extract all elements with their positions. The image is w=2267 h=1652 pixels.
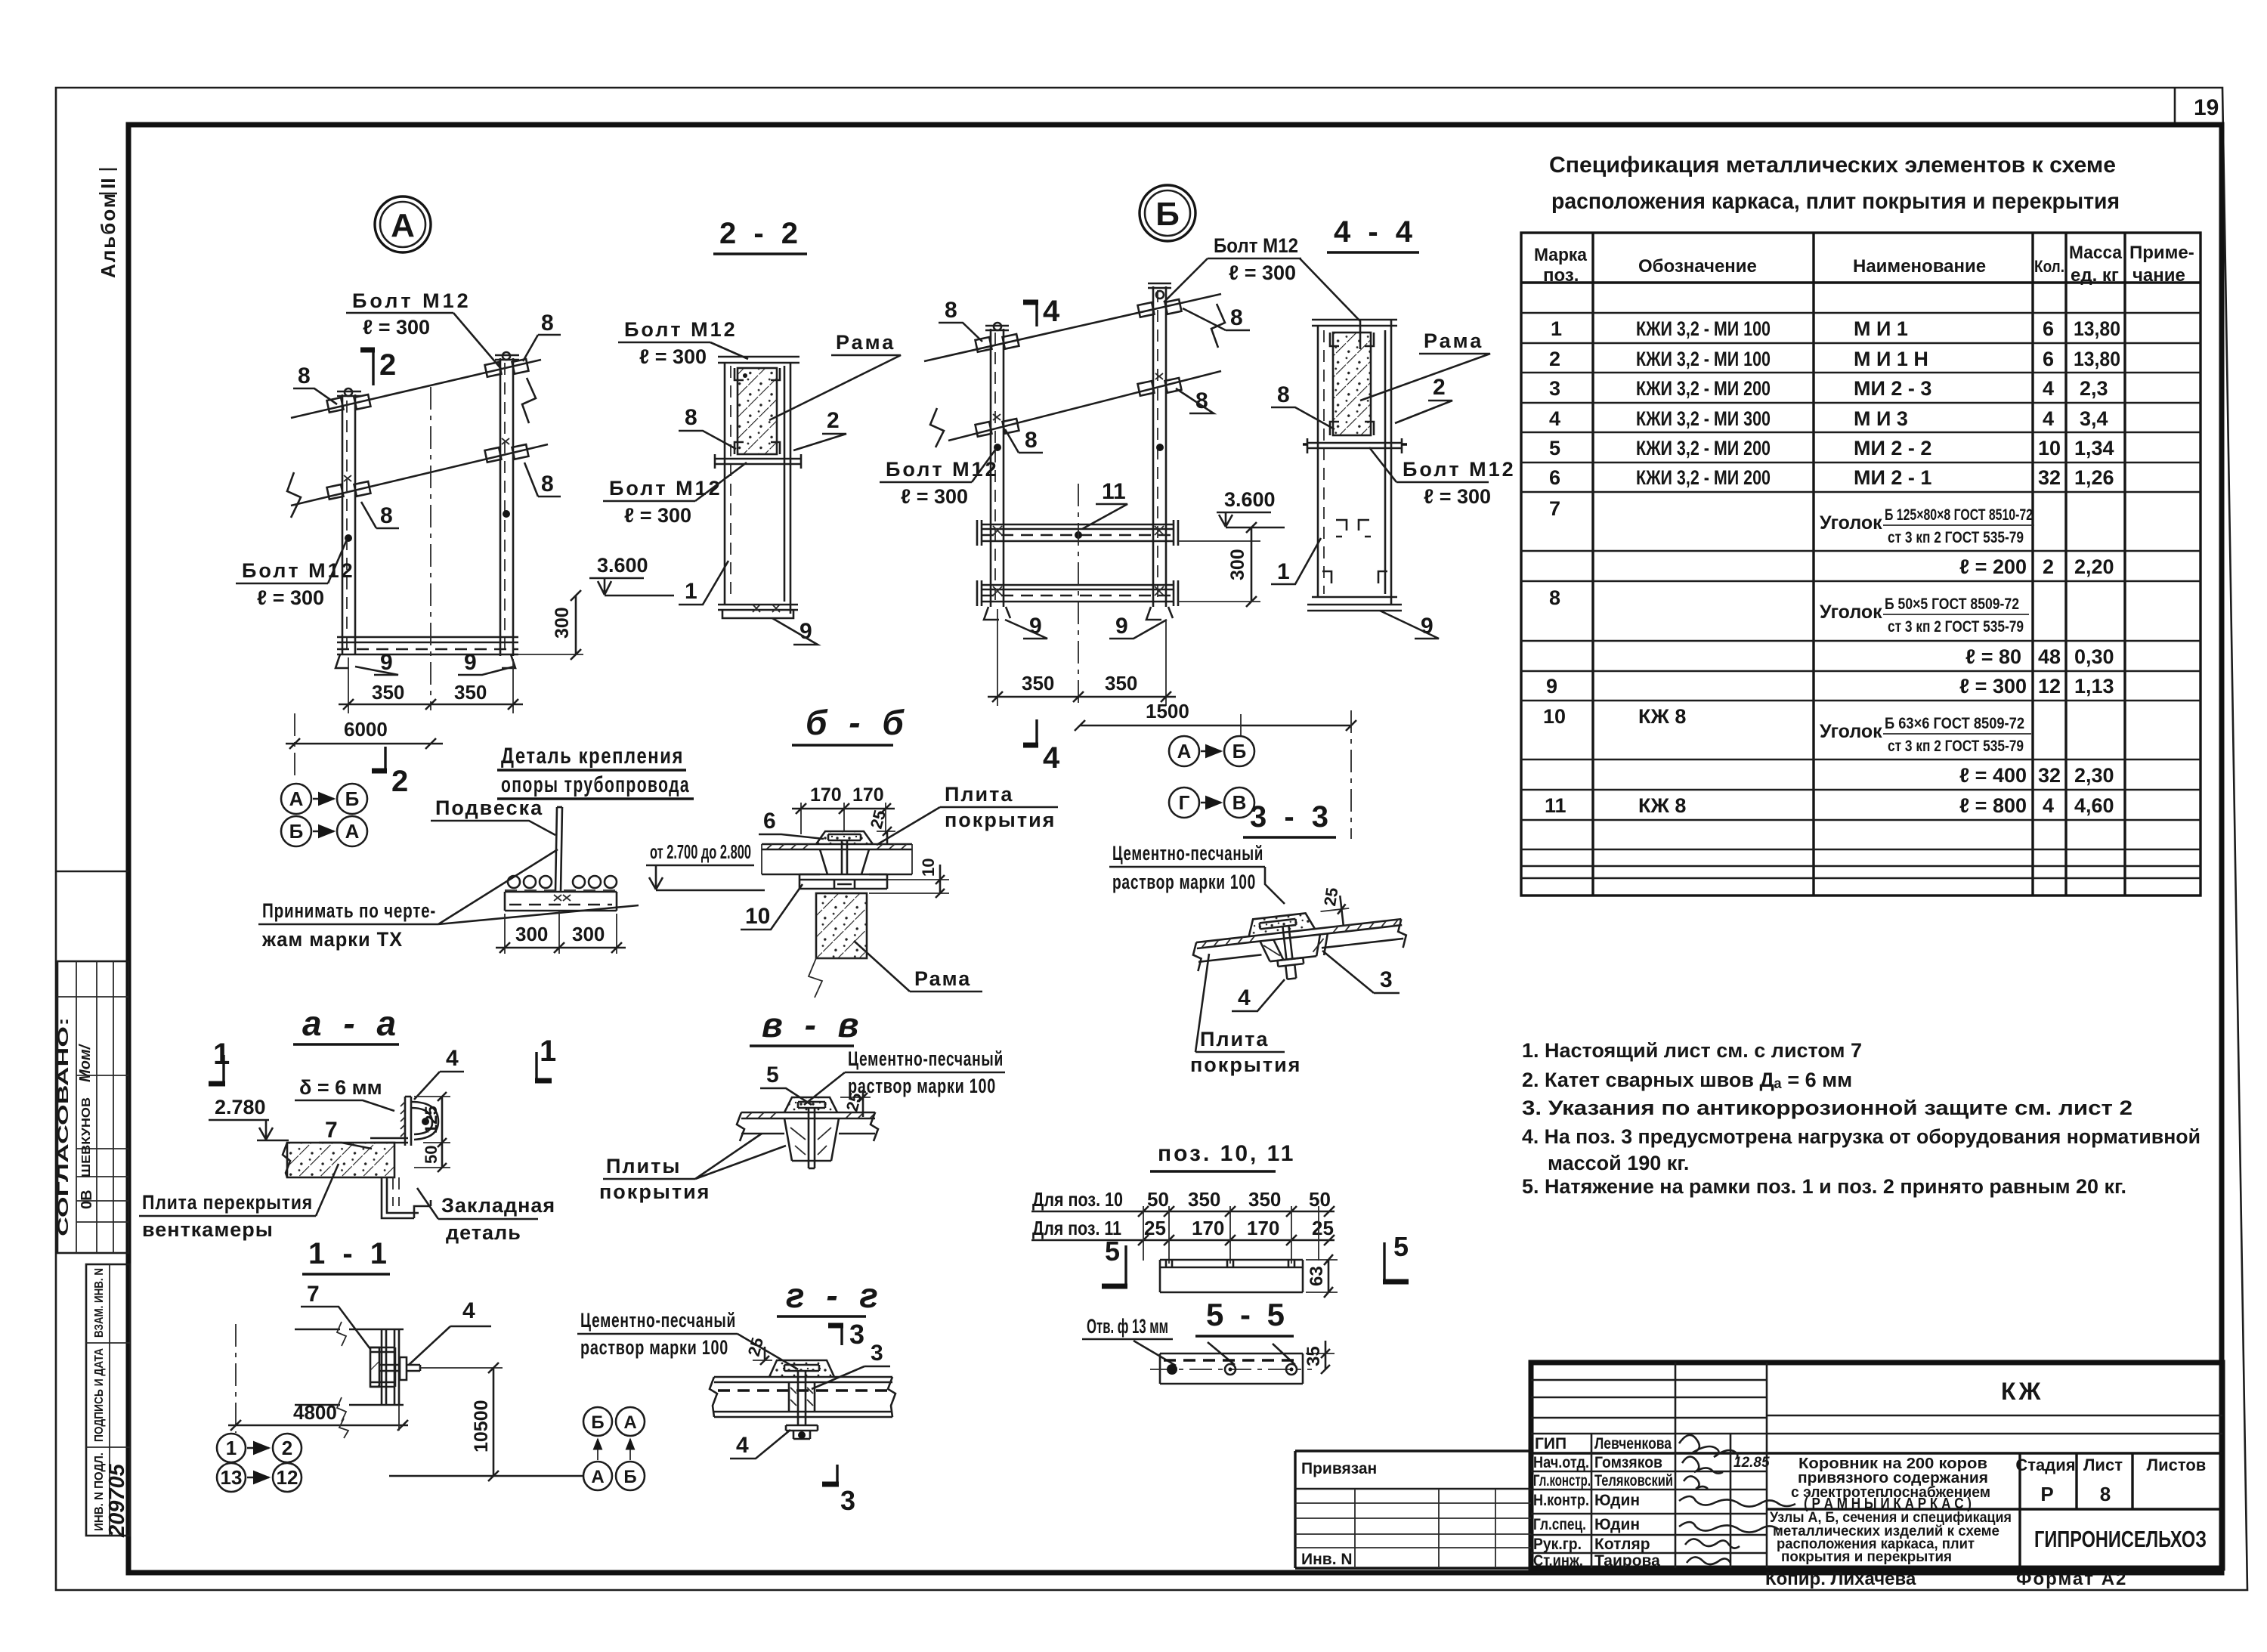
svg-text:6: 6 <box>2043 317 2054 340</box>
svg-text:9: 9 <box>1115 614 1128 639</box>
svg-text:4: 4 <box>462 1298 475 1323</box>
svg-text:4 - 4: 4 - 4 <box>1334 215 1417 249</box>
svg-text:Стадия: Стадия <box>2015 1456 2075 1474</box>
dim 125 and 50 <box>414 1097 450 1168</box>
column top cap <box>1312 320 1397 326</box>
svg-text:48: 48 <box>2038 645 2061 668</box>
svg-text:ℓ = 300: ℓ = 300 <box>257 586 324 609</box>
section mark 2 top <box>372 348 374 385</box>
bolt dots mid posts <box>345 534 352 542</box>
plate elevation <box>1160 1260 1303 1292</box>
svg-text:8: 8 <box>2100 1483 2111 1505</box>
svg-text:ℓ = 300: ℓ = 300 <box>1424 485 1491 508</box>
svg-text:300: 300 <box>515 923 548 945</box>
svg-text:Уголок: Уголок <box>1820 602 1882 623</box>
svg-text:6: 6 <box>1549 466 1560 489</box>
svg-text:расположения каркаса, плит: расположения каркаса, плит покрытия и пе… <box>1551 189 2120 214</box>
svg-text:Нач.отд.: Нач.отд. <box>1533 1454 1589 1471</box>
axis dash-dot <box>235 1324 237 1433</box>
svg-text:М И 3: М И 3 <box>1854 407 1908 430</box>
svg-text:50: 50 <box>1147 1188 1169 1211</box>
svg-text:170: 170 <box>852 784 884 806</box>
svg-text:В: В <box>1232 791 1247 814</box>
dim 170 170 <box>801 803 886 834</box>
slab <box>762 844 912 849</box>
svg-text:2,3: 2,3 <box>2080 377 2108 400</box>
beam <box>505 892 617 911</box>
svg-text:раствор марки 100: раствор марки 100 <box>848 1075 996 1097</box>
svg-text:Принимать по черте-: Принимать по черте- <box>262 899 436 922</box>
svg-text:3. Указания по антикоррозион: 3. Указания по антикоррозионной защите с… <box>1522 1097 2132 1119</box>
svg-text:М И 1: М И 1 <box>1854 317 1908 340</box>
horizontal bar 2 <box>977 580 1178 606</box>
svg-text:КЖ 8: КЖ 8 <box>1638 794 1686 817</box>
svg-text:9: 9 <box>1546 675 1557 698</box>
svg-text:8: 8 <box>685 405 697 430</box>
svg-text:350: 350 <box>1188 1188 1220 1211</box>
svg-text:1. Настоящий лист см. с ли: 1. Настоящий лист см. с листом 7 <box>1522 1039 1862 1062</box>
svg-text:0В: 0В <box>79 1190 95 1209</box>
wire diagonal 2 <box>291 444 548 506</box>
hook D-shape <box>411 1102 438 1140</box>
break marks <box>930 408 944 447</box>
leader to right post top bolt <box>453 313 502 370</box>
dim 63 <box>1306 1260 1338 1292</box>
svg-text:Рама: Рама <box>914 967 971 990</box>
svg-text:ℓ = 300: ℓ = 300 <box>1959 675 2027 698</box>
svg-text:ГИП: ГИП <box>1535 1435 1566 1452</box>
svg-text:3: 3 <box>1549 377 1560 400</box>
dim 1500 <box>1080 725 1351 727</box>
svg-text:8: 8 <box>1025 428 1038 453</box>
dim 10500 vertical <box>420 1367 503 1369</box>
svg-text:А: А <box>1177 740 1192 763</box>
svg-text:ℓ = 200: ℓ = 200 <box>1959 555 2027 578</box>
rib trapezoid <box>784 1118 839 1161</box>
svg-text:300: 300 <box>552 607 573 639</box>
svg-text:Копир. Лихачева: Копир. Лихачева <box>1765 1569 1916 1589</box>
svg-text:поз. 10, 11: поз. 10, 11 <box>1158 1141 1295 1166</box>
svg-text:4: 4 <box>1043 741 1060 775</box>
svg-text:2 - 2: 2 - 2 <box>719 217 803 250</box>
svg-text:ℓ = 300: ℓ = 300 <box>901 485 968 508</box>
svg-text:3 - 3: 3 - 3 <box>1250 800 1333 834</box>
svg-text:Б 50×5 ГОСТ 8509-72: Б 50×5 ГОСТ 8509-72 <box>1885 596 2019 613</box>
break marks on wires <box>287 472 301 518</box>
bolt bar <box>715 459 801 464</box>
svg-text:поз.: поз. <box>1543 265 1579 286</box>
beam band <box>714 1377 892 1417</box>
svg-text:Уголок: Уголок <box>1820 721 1882 742</box>
svg-text:1: 1 <box>1551 317 1562 340</box>
anchor bolt <box>1282 926 1292 960</box>
dots on posts <box>994 444 1001 451</box>
svg-text:Уголок: Уголок <box>1820 512 1882 534</box>
svg-text:Б: Б <box>345 787 360 810</box>
svg-text:10: 10 <box>919 858 938 877</box>
svg-text:4: 4 <box>2043 794 2054 817</box>
svg-text:4: 4 <box>2043 407 2054 430</box>
dim 35 <box>1306 1353 1335 1354</box>
svg-text:2: 2 <box>1433 375 1446 400</box>
svg-text:ст 3 кп 2 ГОСТ 535-79: ст 3 кп 2 ГОСТ 535-79 <box>1888 618 2024 636</box>
svg-text:300: 300 <box>1227 549 1248 580</box>
post <box>382 1329 399 1405</box>
svg-text:СОГЛАСОВАНО:: СОГЛАСОВАНО: <box>56 1017 72 1236</box>
roof slab sloped <box>1196 919 1403 962</box>
svg-text:А: А <box>623 1412 636 1433</box>
svg-text:5 - 5: 5 - 5 <box>1206 1297 1288 1332</box>
hatched frame top (rama) <box>738 368 777 454</box>
section mark 3 top <box>840 1324 843 1345</box>
svg-text:13,80: 13,80 <box>2074 348 2120 370</box>
column hatched <box>816 893 867 958</box>
svg-text:10: 10 <box>1543 705 1566 728</box>
section mark 4 top <box>1035 301 1038 326</box>
svg-text:КЖИ 3,2 - МИ 100: КЖИ 3,2 - МИ 100 <box>1636 348 1771 370</box>
svg-text:Плита перекрытия: Плита перекрытия <box>142 1191 313 1214</box>
horizontal bar 1 (poz 11) <box>977 520 1178 546</box>
svg-text:КЖИ 3,2 - МИ 200: КЖИ 3,2 - МИ 200 <box>1636 377 1771 400</box>
svg-text:1,34: 1,34 <box>2074 437 2114 459</box>
svg-text:3: 3 <box>1380 967 1393 992</box>
svg-text:2: 2 <box>2043 555 2054 578</box>
svg-text:Ст.инж.: Ст.инж. <box>1533 1552 1583 1570</box>
svg-text:4800: 4800 <box>293 1401 337 1424</box>
svg-text:б - б: б - б <box>806 703 910 742</box>
svg-text:25: 25 <box>1312 1217 1334 1239</box>
bolt on left post top <box>327 398 344 413</box>
lower strip table <box>86 1264 130 1536</box>
svg-text:массой 190 кг.: массой 190 кг. <box>1548 1152 1689 1174</box>
axis circles A->B <box>1169 736 1199 766</box>
svg-text:1: 1 <box>226 1437 237 1459</box>
node marker circle B <box>1140 185 1195 241</box>
svg-text:Таирова: Таирова <box>1594 1552 1660 1570</box>
svg-text:Гл.констр.: Гл.констр. <box>1533 1472 1591 1490</box>
node marker circle A <box>375 196 431 252</box>
bottom channel <box>337 637 518 642</box>
svg-text:Б: Б <box>1155 196 1180 233</box>
svg-text:2. Катет сварных швов Дₐ: 2. Катет сварных швов Дₐ = 6 мм <box>1522 1069 1852 1091</box>
plate 5-5 <box>1160 1353 1303 1384</box>
svg-text:Г: Г <box>1179 791 1190 814</box>
signatures scribbles <box>1679 1435 1795 1564</box>
svg-text:Привязан: Привязан <box>1301 1460 1377 1477</box>
svg-text:Б 125×80×8 ГОСТ 8510-72: Б 125×80×8 ГОСТ 8510-72 <box>1885 506 2033 524</box>
svg-text:Юдин: Юдин <box>1594 1492 1640 1509</box>
svg-text:8: 8 <box>541 311 554 336</box>
svg-text:Наименование: Наименование <box>1853 256 1986 277</box>
svg-text:Теляковский: Теляковский <box>1594 1472 1673 1490</box>
mortar bump <box>784 1097 837 1112</box>
25 dim right of bump <box>877 831 895 832</box>
bolt through <box>798 1371 806 1425</box>
svg-text:покрытия и перекрытия: покрытия и перекрытия <box>1781 1549 1952 1565</box>
svg-text:10: 10 <box>745 904 770 929</box>
svg-text:4. На поз. 3 предусмотрена: 4. На поз. 3 предусмотрена нагрузка от о… <box>1522 1125 2201 1148</box>
svg-text:300: 300 <box>572 923 605 945</box>
anchor plate in bump <box>828 834 861 840</box>
svg-text:Отв. ф 13 мм: Отв. ф 13 мм <box>1087 1315 1168 1338</box>
svg-text:Марка: Марка <box>1534 245 1588 265</box>
left attachment table of title block <box>1295 1451 1531 1568</box>
svg-text:6: 6 <box>2043 348 2054 370</box>
svg-text:1 - 1: 1 - 1 <box>308 1237 391 1270</box>
mid angle seats <box>1336 520 1369 531</box>
svg-text:5: 5 <box>1549 437 1560 459</box>
svg-text:ℓ = 300: ℓ = 300 <box>363 316 430 339</box>
svg-text:Рама: Рама <box>836 331 895 354</box>
svg-text:КЖИ 3,2 - МИ 200: КЖИ 3,2 - МИ 200 <box>1636 466 1771 489</box>
svg-text:10500: 10500 <box>471 1400 492 1452</box>
svg-text:Альбом: Альбом <box>97 192 119 278</box>
svg-text:4,60: 4,60 <box>2074 794 2114 817</box>
svg-text:11: 11 <box>1545 794 1566 817</box>
dim 300 300 <box>505 911 617 954</box>
svg-text:ℓ = 300: ℓ = 300 <box>1229 261 1296 284</box>
svg-text:Плита: Плита <box>1200 1028 1269 1050</box>
svg-text:МИ 2 - 1: МИ 2 - 1 <box>1854 466 1931 489</box>
svg-text:10: 10 <box>2038 437 2061 459</box>
svg-text:Лист: Лист <box>2083 1456 2123 1474</box>
svg-text:4: 4 <box>1549 407 1560 430</box>
svg-text:опоры трубопровода: опоры трубопровода <box>501 772 690 797</box>
svg-text:8: 8 <box>1549 586 1560 609</box>
top rail <box>295 1329 404 1331</box>
svg-text:Мом/: Мом/ <box>77 1043 94 1082</box>
svg-text:6000: 6000 <box>344 718 388 741</box>
svg-text:Болт М12: Болт М12 <box>609 477 722 500</box>
svg-text:4: 4 <box>1043 295 1060 328</box>
svg-text:8: 8 <box>541 472 554 497</box>
svg-text:12: 12 <box>2038 675 2061 698</box>
svg-text:Рук.гр.: Рук.гр. <box>1533 1536 1582 1553</box>
svg-text:А: А <box>345 820 360 843</box>
svg-text:Для поз. 10: Для поз. 10 <box>1032 1188 1123 1211</box>
left post <box>991 329 1004 607</box>
svg-text:ед. кг: ед. кг <box>2071 265 2119 286</box>
svg-text:жам марки ТХ: жам марки ТХ <box>261 928 403 951</box>
mortar bump <box>769 1360 834 1377</box>
column top cap <box>718 357 799 363</box>
long line to axis circles <box>389 1475 583 1477</box>
slab band <box>741 1112 875 1134</box>
page number box 19 <box>2174 88 2176 122</box>
svg-text:г - г: г - г <box>786 1276 884 1315</box>
hatched frame top <box>1333 333 1371 435</box>
svg-text:5: 5 <box>1393 1231 1409 1262</box>
svg-text:ℓ = 300: ℓ = 300 <box>624 504 691 527</box>
svg-text:Б: Б <box>623 1467 636 1487</box>
bottom hooks <box>336 654 349 668</box>
svg-text:Масса: Масса <box>2069 243 2123 263</box>
25 dim <box>753 1360 772 1361</box>
bottom plate <box>799 874 887 889</box>
svg-text:КЖ: КЖ <box>2001 1378 2043 1405</box>
svg-text:350: 350 <box>372 681 404 704</box>
svg-text:Гомзяков: Гомзяков <box>1594 1454 1662 1471</box>
svg-text:Болт М12: Болт М12 <box>1214 234 1298 257</box>
svg-text:Плиты: Плиты <box>606 1155 681 1177</box>
svg-text:ПОДПИСЬ И ДАТА: ПОДПИСЬ И ДАТА <box>93 1348 106 1442</box>
svg-text:32: 32 <box>2038 764 2061 787</box>
svg-text:350: 350 <box>1105 672 1137 695</box>
embedded plate on slab <box>370 1138 408 1143</box>
extension lines down to plate <box>1143 1206 1319 1264</box>
column body <box>725 363 790 614</box>
svg-text:8: 8 <box>298 364 311 388</box>
wire diagonal 1 <box>924 294 1221 361</box>
svg-text:Плита: Плита <box>945 783 1013 806</box>
svg-text:ШЕВКУНОВ: ШЕВКУНОВ <box>80 1097 93 1177</box>
svg-text:1: 1 <box>540 1035 556 1068</box>
svg-text:2,20: 2,20 <box>2074 555 2114 578</box>
svg-text:4: 4 <box>736 1433 749 1458</box>
svg-text:32: 32 <box>2038 466 2061 489</box>
svg-text:3: 3 <box>840 1485 855 1516</box>
svg-text:35: 35 <box>1304 1346 1324 1366</box>
svg-text:Б 63×6 ГОСТ 8509-72: Б 63×6 ГОСТ 8509-72 <box>1885 715 2024 732</box>
svg-text:ВЗАМ. ИНВ. N: ВЗАМ. ИНВ. N <box>93 1268 106 1338</box>
svg-text:ст 3 кп 2 ГОСТ 535-79: ст 3 кп 2 ГОСТ 535-79 <box>1888 738 2024 755</box>
svg-text:1: 1 <box>685 579 697 604</box>
column body <box>1318 320 1391 605</box>
svg-text:ГИПРОНИСЕЛЬХОЗ: ГИПРОНИСЕЛЬХОЗ <box>2034 1526 2207 1552</box>
wire diagonal 1 <box>291 360 541 418</box>
svg-text:25: 25 <box>1320 886 1341 908</box>
svg-text:ℓ = 300: ℓ = 300 <box>639 345 707 368</box>
svg-text:Левченкова: Левченкова <box>1594 1435 1672 1452</box>
bolts left post <box>976 337 992 352</box>
svg-text:Цементно-песчаный: Цементно-песчаный <box>1112 842 1263 865</box>
svg-text:2: 2 <box>391 765 408 798</box>
svg-text:МИ 2 - 2: МИ 2 - 2 <box>1854 437 1931 459</box>
svg-text:Инв. N: Инв. N <box>1301 1551 1353 1568</box>
angle seats <box>735 368 780 380</box>
right post <box>500 358 513 656</box>
ribs of plates <box>1260 933 1330 962</box>
svg-text:1500: 1500 <box>1146 700 1189 722</box>
bottom hooks <box>984 607 1010 620</box>
axis circles 1-2 13-12 <box>217 1434 246 1462</box>
svg-text:КЖИ 3,2 - МИ 200: КЖИ 3,2 - МИ 200 <box>1636 437 1771 459</box>
svg-text:13: 13 <box>221 1466 243 1489</box>
z-profile below slab <box>382 1177 414 1218</box>
bolt on right post lower <box>485 447 502 462</box>
svg-text:Б: Б <box>1232 740 1247 763</box>
soglasovano table <box>56 871 128 873</box>
svg-text:8: 8 <box>1230 305 1243 330</box>
svg-text:Р: Р <box>2040 1483 2053 1505</box>
left strip tables <box>56 169 130 1538</box>
svg-text:ст 3 кп 2 ГОСТ 535-79: ст 3 кп 2 ГОСТ 535-79 <box>1888 529 2024 546</box>
svg-text:Закладная: Закладная <box>441 1194 555 1217</box>
svg-text:7: 7 <box>1549 497 1560 520</box>
svg-text:0,30: 0,30 <box>2074 645 2114 668</box>
bolt on left post lower <box>327 484 344 500</box>
svg-text:3: 3 <box>849 1319 864 1350</box>
svg-text:8: 8 <box>945 298 957 323</box>
svg-text:покрытия: покрытия <box>1190 1053 1301 1076</box>
svg-text:деталь: деталь <box>446 1221 521 1244</box>
svg-text:170: 170 <box>1192 1217 1224 1239</box>
svg-text:8: 8 <box>1277 382 1290 407</box>
svg-text:раствор марки 100: раствор марки 100 <box>580 1336 728 1359</box>
svg-text:5. Натяжение на рамки поз.: 5. Натяжение на рамки поз. 1 и поз. 2 пр… <box>1522 1175 2126 1198</box>
svg-text:Н.контр.: Н.контр. <box>1533 1492 1589 1509</box>
mortar bump <box>816 831 873 844</box>
svg-text:Цементно-песчаный: Цементно-песчаный <box>848 1047 1004 1070</box>
mortar bump <box>1247 912 1315 936</box>
svg-text:Приме-: Приме- <box>2129 243 2194 263</box>
ticks on dim rows <box>1138 1206 1335 1217</box>
svg-text:ℓ = 800: ℓ = 800 <box>1959 794 2027 817</box>
svg-text:3: 3 <box>871 1341 883 1366</box>
bolt <box>379 1365 400 1371</box>
svg-text:170: 170 <box>810 784 842 806</box>
svg-text:КЖИ 3,2 - МИ 100: КЖИ 3,2 - МИ 100 <box>1636 317 1771 340</box>
svg-text:125: 125 <box>422 1106 441 1134</box>
dim 350 350 <box>997 609 1166 706</box>
svg-text:6: 6 <box>763 809 776 834</box>
svg-text:170: 170 <box>1247 1217 1279 1239</box>
svg-text:63: 63 <box>1307 1266 1327 1286</box>
svg-text:КЖИ 3,2 - МИ 300: КЖИ 3,2 - МИ 300 <box>1636 407 1771 430</box>
svg-text:Гл.спец.: Гл.спец. <box>1533 1516 1586 1533</box>
svg-text:ℓ = 400: ℓ = 400 <box>1959 764 2027 787</box>
svg-text:Цементно-песчаный: Цементно-песчаный <box>580 1309 736 1332</box>
svg-text:А: А <box>591 1467 604 1487</box>
svg-text:Кол.: Кол. <box>2034 257 2064 276</box>
svg-text:Болт М12: Болт М12 <box>1403 458 1516 481</box>
svg-text:12.85: 12.85 <box>1733 1455 1770 1471</box>
svg-text:1: 1 <box>213 1038 230 1071</box>
svg-text:7: 7 <box>325 1118 338 1143</box>
svg-text:ИНВ. N ПОДЛ.: ИНВ. N ПОДЛ. <box>93 1452 106 1531</box>
wire diagonal 2 <box>948 371 1221 441</box>
svg-text:М И 1 Н: М И 1 Н <box>1854 348 1928 370</box>
svg-text:Обозначение: Обозначение <box>1638 256 1757 277</box>
svg-text:50: 50 <box>422 1146 441 1164</box>
dim 350 350 <box>348 657 513 713</box>
left post <box>342 394 355 654</box>
svg-text:КЖ 8: КЖ 8 <box>1638 705 1686 728</box>
svg-text:4: 4 <box>1238 985 1251 1010</box>
svg-text:Котляр: Котляр <box>1594 1536 1650 1553</box>
svg-text:12: 12 <box>277 1466 298 1489</box>
svg-text:209705: 209705 <box>105 1463 129 1538</box>
section mark 2 bottom <box>384 747 386 771</box>
section mark 4 bottom <box>1035 719 1038 745</box>
svg-text:Листов: Листов <box>2147 1456 2207 1474</box>
svg-text:Деталь крепления: Деталь крепления <box>501 744 684 769</box>
bottom seat <box>718 605 798 610</box>
column base <box>1322 571 1387 583</box>
svg-text:от 2.700 до 2.800: от 2.700 до 2.800 <box>650 840 751 863</box>
axis circles B-A / A-B <box>583 1407 612 1436</box>
axis circles A-B <box>281 784 311 814</box>
leader diagonals crossing holes <box>1133 1341 1295 1366</box>
bracket vertical plate <box>405 1097 411 1146</box>
svg-text:1,26: 1,26 <box>2074 466 2114 489</box>
svg-text:покрытия: покрытия <box>945 809 1056 831</box>
notes <box>1522 1039 2201 1198</box>
svg-text:Болт М12: Болт М12 <box>624 318 738 341</box>
dim 300 vertical right <box>518 654 583 655</box>
svg-text:раствор марки 100: раствор марки 100 <box>1112 871 1256 893</box>
svg-text:Формат А2: Формат А2 <box>2016 1569 2127 1589</box>
